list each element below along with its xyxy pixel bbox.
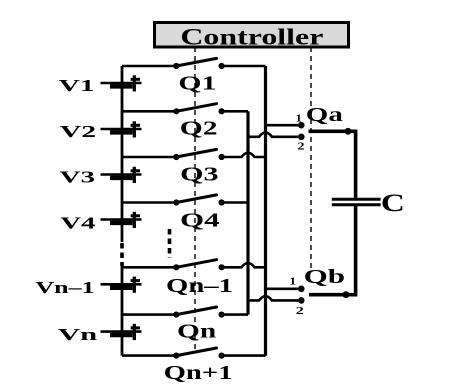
svg-text:2: 2 [298, 141, 306, 153]
svg-text:Qn+1: Qn+1 [164, 362, 233, 382]
svg-text:Q3: Q3 [180, 163, 218, 185]
svg-text:C: C [381, 190, 405, 217]
svg-text:Qa: Qa [306, 104, 343, 126]
svg-text:1: 1 [290, 276, 297, 288]
svg-text:Q1: Q1 [178, 73, 216, 95]
svg-text:Qn: Qn [177, 320, 216, 342]
svg-text:Controller: Controller [180, 25, 323, 50]
svg-text:Q4: Q4 [180, 210, 220, 232]
svg-text:1: 1 [296, 113, 302, 125]
svg-text:Qb: Qb [304, 266, 346, 288]
svg-text:V4: V4 [60, 213, 96, 232]
svg-text:V3: V3 [60, 168, 96, 187]
svg-text:Vn: Vn [58, 325, 98, 344]
svg-text:Vn–1: Vn–1 [35, 278, 94, 297]
svg-text:2: 2 [296, 305, 305, 317]
svg-text:Qn–1: Qn–1 [166, 275, 233, 297]
svg-text:Q2: Q2 [180, 118, 218, 140]
svg-text:V1: V1 [59, 76, 95, 95]
svg-text:V2: V2 [60, 122, 96, 141]
